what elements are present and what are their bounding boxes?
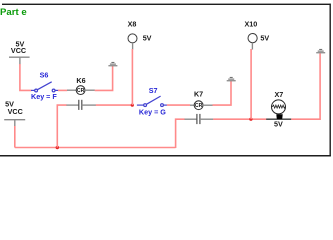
wire S6 to K6	[58, 89, 67, 91]
wire bottom rail	[15, 147, 176, 149]
power VCC1 5V	[9, 40, 30, 65]
switch S7	[137, 96, 167, 106]
svg-text:Part e: Part e	[0, 7, 27, 18]
ground GND3	[316, 49, 325, 52]
power VCC2 5V	[4, 100, 25, 127]
switch S6	[31, 82, 58, 92]
relay contact K6 (normally open)	[66, 100, 96, 110]
svg-text:VCC: VCC	[11, 46, 26, 55]
probe X8	[128, 34, 137, 50]
svg-text:S7: S7	[149, 86, 158, 95]
junction rail to rung2 riser	[56, 146, 59, 149]
junction node under X10	[249, 118, 252, 121]
ground GND2	[227, 77, 236, 80]
svg-text:CR: CR	[77, 88, 85, 94]
wire contact K7 to lamp X7	[213, 118, 266, 120]
wire X8 down to node	[131, 49, 133, 105]
svg-text:X10: X10	[245, 19, 258, 28]
wire VCC1 to S6	[20, 64, 32, 90]
relay contact K7 (normally open)	[185, 114, 214, 124]
wire K6 to ground GND1	[95, 66, 113, 90]
svg-text:X7: X7	[275, 90, 284, 99]
svg-text:5V: 5V	[143, 34, 152, 43]
svg-text:CR: CR	[195, 103, 203, 109]
svg-text:X8: X8	[128, 19, 137, 28]
svg-text:5V: 5V	[274, 120, 283, 129]
wire lamp to ground GND3	[291, 53, 320, 119]
svg-text:Key = F: Key = F	[31, 92, 57, 101]
junction node under X8	[131, 104, 134, 107]
wire rail riser to contact K7	[176, 119, 185, 148]
lamp X7	[266, 100, 291, 119]
svg-text:S6: S6	[40, 71, 49, 80]
relay coil K6	[67, 86, 95, 95]
wire riser to contact K6	[57, 105, 66, 147]
wire VCC2 down to bottom rail	[14, 126, 16, 148]
wire X10 down to node	[250, 49, 252, 119]
wire S7 to K7	[167, 104, 190, 106]
ground GND1	[108, 62, 117, 65]
svg-text:5V: 5V	[260, 34, 269, 43]
probe X10	[248, 34, 257, 50]
relay coil K7	[190, 101, 213, 110]
svg-text:K7: K7	[194, 90, 203, 99]
wire contact K6 to node under X8	[96, 104, 133, 106]
svg-text:K6: K6	[76, 76, 85, 85]
svg-text:Key = G: Key = G	[139, 107, 166, 116]
svg-text:VCC: VCC	[8, 107, 23, 116]
wire K7 to ground GND2	[213, 81, 232, 105]
